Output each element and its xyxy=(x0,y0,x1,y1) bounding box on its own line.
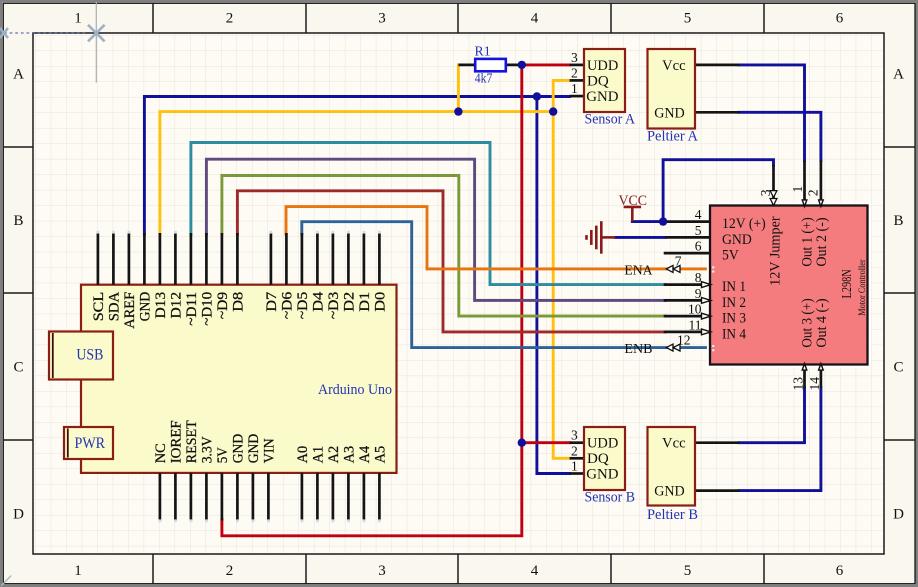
L298N pin 6 5V xyxy=(664,239,739,264)
svg-text:USB: USB xyxy=(76,346,103,363)
svg-text:B: B xyxy=(13,213,23,229)
VCC power symbol xyxy=(619,193,648,222)
svg-text:3: 3 xyxy=(758,189,773,196)
Arduino pin SDA xyxy=(107,231,123,321)
svg-text:~D5: ~D5 xyxy=(295,292,311,320)
svg-text:3: 3 xyxy=(378,563,386,579)
svg-text:2: 2 xyxy=(571,443,578,458)
svg-text:A: A xyxy=(893,67,904,83)
svg-text:6: 6 xyxy=(836,563,844,579)
wire net DQ branch down to Sensor B DQ xyxy=(553,112,569,459)
svg-text:11: 11 xyxy=(689,318,702,333)
Arduino pin ~D5 xyxy=(295,233,311,319)
junction xyxy=(659,217,667,225)
Arduino pin D13 xyxy=(153,233,169,319)
svg-text:D0: D0 xyxy=(373,292,389,312)
svg-text:NC: NC xyxy=(153,443,169,463)
L298N pin 8 IN 1 xyxy=(664,270,746,295)
Arduino pin ~D9 xyxy=(215,233,231,319)
wire ground symbol to L298N pin 5 xyxy=(615,236,665,239)
IC U1 L298N motor controller xyxy=(707,202,871,367)
Arduino pin SCL xyxy=(91,231,107,321)
svg-text:RESET: RESET xyxy=(184,420,200,463)
svg-text:IN 3: IN 3 xyxy=(722,311,746,327)
svg-text:IOREF: IOREF xyxy=(169,420,185,463)
svg-text:3: 3 xyxy=(571,50,578,65)
svg-text:GND: GND xyxy=(586,467,618,483)
L298N pin 13 Out 3 (+) xyxy=(791,364,807,391)
junction xyxy=(518,439,526,447)
Arduino pin D1 xyxy=(357,231,373,312)
svg-text:4: 4 xyxy=(531,563,539,579)
Arduino pin GND (bottom) xyxy=(231,434,247,523)
L298N pin 7 xyxy=(666,254,714,273)
L298N pin 10 IN 3 xyxy=(664,302,746,327)
svg-text:AREF: AREF xyxy=(122,292,138,329)
svg-text:8: 8 xyxy=(695,270,702,285)
svg-text:SDA: SDA xyxy=(107,291,123,321)
svg-text:GND: GND xyxy=(722,232,752,248)
wire net IN4 (maroon) Arduino D8 to L298N pin 11 xyxy=(237,191,665,332)
wire net GND branch to Sensor B GND xyxy=(537,97,570,474)
svg-text:GND: GND xyxy=(654,105,685,121)
Arduino pin ~D3 xyxy=(326,231,342,319)
svg-text:Out 3 (+): Out 3 (+) xyxy=(800,298,816,347)
svg-text:9: 9 xyxy=(695,286,702,301)
svg-text:A4: A4 xyxy=(357,446,373,464)
Arduino pin D2 xyxy=(342,231,358,312)
svg-text:Vcc: Vcc xyxy=(662,58,686,74)
svg-text:A2: A2 xyxy=(326,446,342,464)
wire net ENB (steel blue) Arduino ~D5 to L298N pin 12 xyxy=(302,222,709,348)
svg-text:SCL: SCL xyxy=(91,292,107,322)
Peltier A module xyxy=(647,49,739,145)
svg-text:3.3V: 3.3V xyxy=(200,436,216,464)
L298N pin 9 IN 2 xyxy=(664,286,746,311)
PWR connector of Arduino xyxy=(64,427,113,459)
svg-text:12V (+): 12V (+) xyxy=(722,216,766,232)
Arduino pin D0 xyxy=(373,231,389,312)
wire net 12V VCC symbol to L298N pin 4 and pin 3 xyxy=(632,160,773,222)
svg-text:VIN: VIN xyxy=(262,438,278,463)
wire Peltier A GND to L298N pin 2 xyxy=(739,112,821,160)
svg-text:2: 2 xyxy=(226,11,234,27)
wire net 5V branch to Sensor B UDD xyxy=(522,441,570,444)
svg-text:12V Jumper: 12V Jumper xyxy=(768,216,784,286)
resistor R1 4k7 xyxy=(458,44,521,86)
svg-text:2: 2 xyxy=(806,189,821,196)
Arduino pin A5 (bottom) xyxy=(373,446,389,522)
svg-text:2: 2 xyxy=(226,563,234,579)
Arduino pin A2 (bottom) xyxy=(326,446,342,522)
junction xyxy=(518,61,526,69)
svg-text:A5: A5 xyxy=(373,446,389,464)
svg-text:ENA: ENA xyxy=(624,263,653,278)
wire net DQ branch up to R1 left xyxy=(457,65,460,112)
svg-text:3: 3 xyxy=(571,428,578,443)
sensor module Sensor A xyxy=(570,49,636,128)
svg-text:Out 2 (-): Out 2 (-) xyxy=(814,217,830,266)
Arduino pin NC (bottom) xyxy=(153,443,169,522)
svg-text:1: 1 xyxy=(790,186,805,193)
svg-text:GND: GND xyxy=(654,484,685,500)
svg-text:3: 3 xyxy=(378,11,386,27)
svg-text:1: 1 xyxy=(571,81,578,96)
svg-text:GND: GND xyxy=(246,434,262,464)
svg-text:14: 14 xyxy=(807,377,822,391)
L298N pin 3 12V Jumper xyxy=(758,165,777,206)
svg-text:Arduino Uno: Arduino Uno xyxy=(318,382,392,398)
svg-text:GND: GND xyxy=(231,434,247,464)
L298N pin 1 Out 1 (+) xyxy=(790,161,807,207)
Arduino pin AREF xyxy=(122,231,138,329)
svg-text:D4: D4 xyxy=(311,292,327,312)
wire net DQ (yellow) Arduino D13 to junctions xyxy=(160,112,553,234)
svg-text:13: 13 xyxy=(791,377,806,391)
wire L298N pin 13 to Peltier B Vcc xyxy=(739,388,804,443)
Peltier B module xyxy=(647,427,739,523)
Arduino pin ~D10 xyxy=(200,233,216,326)
junction xyxy=(533,92,541,100)
Arduino pin D8 xyxy=(231,233,247,312)
svg-text:Sensor A: Sensor A xyxy=(585,112,636,128)
Arduino pin ~D6 xyxy=(280,233,296,319)
svg-text:D7: D7 xyxy=(264,292,280,312)
L298N pin 12 xyxy=(666,332,714,351)
Arduino pin D7 xyxy=(264,231,280,312)
IC Arduino Uno xyxy=(81,285,397,473)
Arduino pin A1 (bottom) xyxy=(311,446,327,522)
L298N pin 11 IN 4 xyxy=(664,318,747,343)
svg-text:A: A xyxy=(13,67,24,83)
svg-text:UDD: UDD xyxy=(587,58,618,74)
svg-text:~D3: ~D3 xyxy=(326,292,342,320)
svg-text:A1: A1 xyxy=(311,446,327,464)
svg-text:IN 4: IN 4 xyxy=(722,326,747,342)
svg-text:C: C xyxy=(893,360,903,376)
svg-text:D13: D13 xyxy=(153,292,169,319)
svg-text:IN 2: IN 2 xyxy=(722,295,746,311)
junction xyxy=(549,107,557,115)
wire Peltier A Vcc to L298N pin 1 xyxy=(739,65,804,161)
wire net IN2 (purple) Arduino ~D10 to L298N pin 9 xyxy=(206,159,665,300)
svg-text:2: 2 xyxy=(571,66,578,81)
Arduino pin A3 (bottom) xyxy=(342,446,358,522)
wire net DQ branch to Sensor A DQ xyxy=(553,80,569,111)
wire net 5V (red) Arduino 5V to R1 right and sensors UDD xyxy=(222,65,570,536)
svg-text:D: D xyxy=(13,507,24,523)
svg-text:R1: R1 xyxy=(475,44,491,59)
svg-text:5: 5 xyxy=(684,11,692,27)
svg-text:L298N: L298N xyxy=(839,269,854,298)
svg-text:Sensor B: Sensor B xyxy=(585,490,636,506)
svg-text:GND: GND xyxy=(138,292,154,322)
ground symbol xyxy=(587,221,616,254)
svg-text:C: C xyxy=(13,360,23,376)
svg-text:DQ: DQ xyxy=(587,73,609,89)
Arduino pin RESET (bottom) xyxy=(184,420,200,522)
svg-text:ENB: ENB xyxy=(624,342,652,357)
wire net IN3 (olive) Arduino ~D9 to L298N pin 10 xyxy=(222,176,665,317)
sensor module Sensor B xyxy=(570,427,635,506)
Arduino pin ~D11 xyxy=(184,233,200,326)
svg-text:~D10: ~D10 xyxy=(200,292,216,326)
svg-text:5V: 5V xyxy=(215,447,231,464)
svg-text:5: 5 xyxy=(695,223,702,238)
Arduino pin 5V (bottom) xyxy=(215,447,231,521)
Arduino pin 3.3V (bottom) xyxy=(200,436,216,523)
junction xyxy=(454,107,462,115)
svg-text:7: 7 xyxy=(675,254,682,269)
svg-text:D12: D12 xyxy=(169,292,185,319)
Arduino pin D4 xyxy=(311,231,327,312)
svg-text:A0: A0 xyxy=(295,446,311,464)
Arduino pin A0 (bottom) xyxy=(295,446,311,522)
svg-text:IN 1: IN 1 xyxy=(722,279,746,295)
svg-text:Peltier B: Peltier B xyxy=(647,507,698,523)
svg-text:4k7: 4k7 xyxy=(475,72,493,87)
svg-text:Vcc: Vcc xyxy=(662,436,686,452)
svg-text:Motor Controller: Motor Controller xyxy=(858,259,868,316)
svg-text:GND: GND xyxy=(586,89,618,105)
svg-text:D: D xyxy=(893,507,904,523)
wire L298N pin 14 to Peltier B GND xyxy=(739,388,821,491)
svg-text:1: 1 xyxy=(74,563,82,579)
L298N pin 14 Out 4 (-) xyxy=(807,364,823,391)
svg-text:Out 4 (-): Out 4 (-) xyxy=(814,298,830,347)
svg-text:Peltier A: Peltier A xyxy=(647,129,699,145)
svg-text:D8: D8 xyxy=(231,292,247,312)
svg-text:1: 1 xyxy=(571,459,578,474)
Arduino pin GND xyxy=(138,233,154,321)
L298N pin 4 12V (+) xyxy=(663,207,766,232)
svg-text:PWR: PWR xyxy=(75,435,106,452)
svg-text:6: 6 xyxy=(836,11,844,27)
svg-text:4: 4 xyxy=(531,11,539,27)
svg-text:12: 12 xyxy=(677,332,691,347)
wire net ENA (orange) Arduino ~D6 to L298N pin 7 xyxy=(286,207,709,269)
Arduino pin IOREF (bottom) xyxy=(169,420,185,522)
svg-text:~D9: ~D9 xyxy=(215,292,231,320)
Arduino pin GND (bottom) xyxy=(246,434,262,523)
svg-text:10: 10 xyxy=(688,302,702,317)
svg-text:UDD: UDD xyxy=(587,436,618,452)
svg-text:5V: 5V xyxy=(722,248,739,264)
svg-text:~D6: ~D6 xyxy=(280,292,296,320)
Arduino pin VIN (bottom) xyxy=(262,438,278,522)
svg-text:~D11: ~D11 xyxy=(184,292,200,326)
L298N pin 5 GND xyxy=(665,223,752,248)
svg-text:D1: D1 xyxy=(357,292,373,312)
svg-text:Out 1 (+): Out 1 (+) xyxy=(800,217,816,266)
svg-text:B: B xyxy=(893,213,903,229)
svg-text:D2: D2 xyxy=(342,292,358,312)
svg-text:4: 4 xyxy=(695,207,702,222)
wire net IN1 (teal) Arduino ~D11 to L298N pin 8 xyxy=(191,143,665,285)
Arduino pin A4 (bottom) xyxy=(357,446,373,522)
USB connector of Arduino xyxy=(49,332,113,380)
wire net GND (navy) Arduino GND to Sensor A GND xyxy=(144,97,569,235)
Arduino pin D12 xyxy=(169,231,185,319)
L298N pin 2 Out 2 (-) xyxy=(806,161,824,207)
svg-text:5: 5 xyxy=(684,563,692,579)
svg-text:DQ: DQ xyxy=(587,451,609,467)
svg-text:1: 1 xyxy=(74,11,82,27)
svg-text:A3: A3 xyxy=(342,446,358,464)
svg-text:6: 6 xyxy=(695,239,702,254)
